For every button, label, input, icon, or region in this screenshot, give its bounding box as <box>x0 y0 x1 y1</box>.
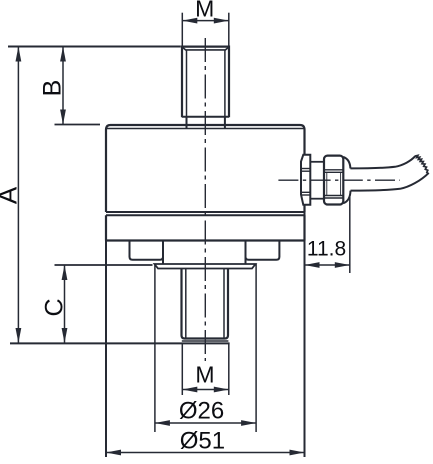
M (top) arrows <box>182 18 229 24</box>
dimension B line <box>62 47 64 125</box>
Ø51 arrows <box>106 450 305 456</box>
hex boss middle facet right edge <box>245 241 247 264</box>
body top chamfer line <box>107 128 305 130</box>
svg-text:B: B <box>38 80 66 97</box>
dimension B arrows <box>60 47 66 125</box>
hex boss middle facet left edge <box>162 241 164 264</box>
gland hex washer at body <box>301 155 310 205</box>
body left edge extension down (Ø51 left) <box>105 241 107 458</box>
body right edge lower segment + 11.8 left extension <box>304 205 306 457</box>
11.8 dimension line <box>305 264 350 266</box>
hex boss left facet <box>130 241 164 260</box>
nut facet curvature left <box>326 172 328 195</box>
gland hex nut <box>324 156 343 205</box>
bottom stud chamfer line <box>182 340 229 342</box>
M (top) extension line left <box>181 13 183 46</box>
Ø26 extension line right <box>255 264 257 432</box>
dimension A arrows <box>16 47 22 344</box>
gland washer facet lines <box>301 168 310 170</box>
M (bottom) extension line right <box>228 343 230 395</box>
Ø26 arrows <box>155 420 256 426</box>
M (top) extension line right <box>228 13 230 46</box>
top extension line (stud top plane) <box>8 46 181 48</box>
svg-text:A: A <box>0 186 23 204</box>
hex boss right facet <box>246 241 280 260</box>
bottom threaded stud outline <box>182 269 229 339</box>
11.8 arrows <box>305 262 350 268</box>
dimension C arrows <box>62 265 68 343</box>
top stud thread line left <box>186 51 188 117</box>
bottom extension line (lower stud bottom plane) <box>10 342 230 344</box>
vertical center line <box>204 38 206 361</box>
washer under boss <box>155 264 256 269</box>
nut facet lines <box>324 169 343 171</box>
cable break zigzag <box>415 155 429 173</box>
flange bottom edge <box>106 239 305 241</box>
Ø51 dimension line <box>106 452 305 454</box>
cable top edge <box>350 156 415 168</box>
horizontal center line (gland axis) <box>278 179 400 181</box>
Ø26 extension line left <box>154 264 156 432</box>
11.8 right extension line <box>349 197 351 273</box>
top stud neck into body right <box>224 117 226 128</box>
gland dome bottom <box>343 191 350 204</box>
dimension A line <box>17 47 19 344</box>
svg-text:C: C <box>41 298 69 316</box>
top stud neck into body left <box>186 117 188 128</box>
cable bottom edge <box>351 173 429 191</box>
main body (upper cylinder) <box>106 125 305 212</box>
svg-text:Ø51: Ø51 <box>180 428 225 455</box>
gland dome top <box>343 157 350 168</box>
svg-text:M: M <box>195 0 214 22</box>
flange (lower ring) <box>106 215 305 240</box>
seam lower line <box>106 214 305 216</box>
svg-text:11.8: 11.8 <box>307 238 346 261</box>
bottom stud thread line left <box>185 269 187 338</box>
top stud chamfer line <box>183 47 229 50</box>
top stud shoulder line <box>182 116 229 118</box>
M (top) dimension line <box>182 20 229 22</box>
top stud thread line right <box>224 51 226 117</box>
nut facet curvature right <box>340 172 342 195</box>
body bottom edge / seam upper line <box>106 211 305 213</box>
bottom stud thread line right <box>223 269 225 338</box>
M (bottom) arrows <box>182 387 229 393</box>
dimension C line <box>64 265 66 343</box>
svg-text:Ø26: Ø26 <box>179 398 224 425</box>
Ø26 dimension line <box>155 422 256 424</box>
svg-text:M: M <box>195 362 214 388</box>
B bottom extension line (body top plane) <box>55 124 101 126</box>
C top extension line (washer top plane) <box>55 264 153 266</box>
M (bottom) extension line left <box>181 343 183 395</box>
gland neck top <box>310 161 324 163</box>
M (bottom) dimension line <box>182 389 229 391</box>
gland neck bottom <box>310 198 324 200</box>
top threaded stud outline <box>182 47 229 118</box>
